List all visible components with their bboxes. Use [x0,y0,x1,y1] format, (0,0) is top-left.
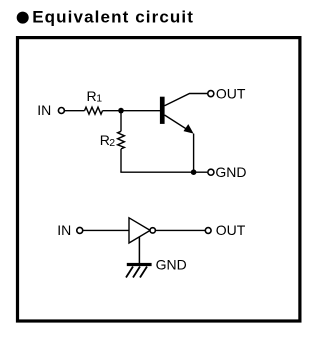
svg-text:Equivalent circuit: Equivalent circuit [32,7,194,26]
svg-text:GND: GND [215,164,246,180]
svg-text:R: R [87,88,97,104]
svg-text:IN: IN [37,102,51,118]
svg-text:GND: GND [156,256,187,272]
svg-text:1: 1 [96,93,102,105]
svg-text:IN: IN [57,222,71,238]
svg-text:OUT: OUT [216,86,246,102]
svg-text:OUT: OUT [216,222,246,238]
svg-text:2: 2 [109,137,115,149]
